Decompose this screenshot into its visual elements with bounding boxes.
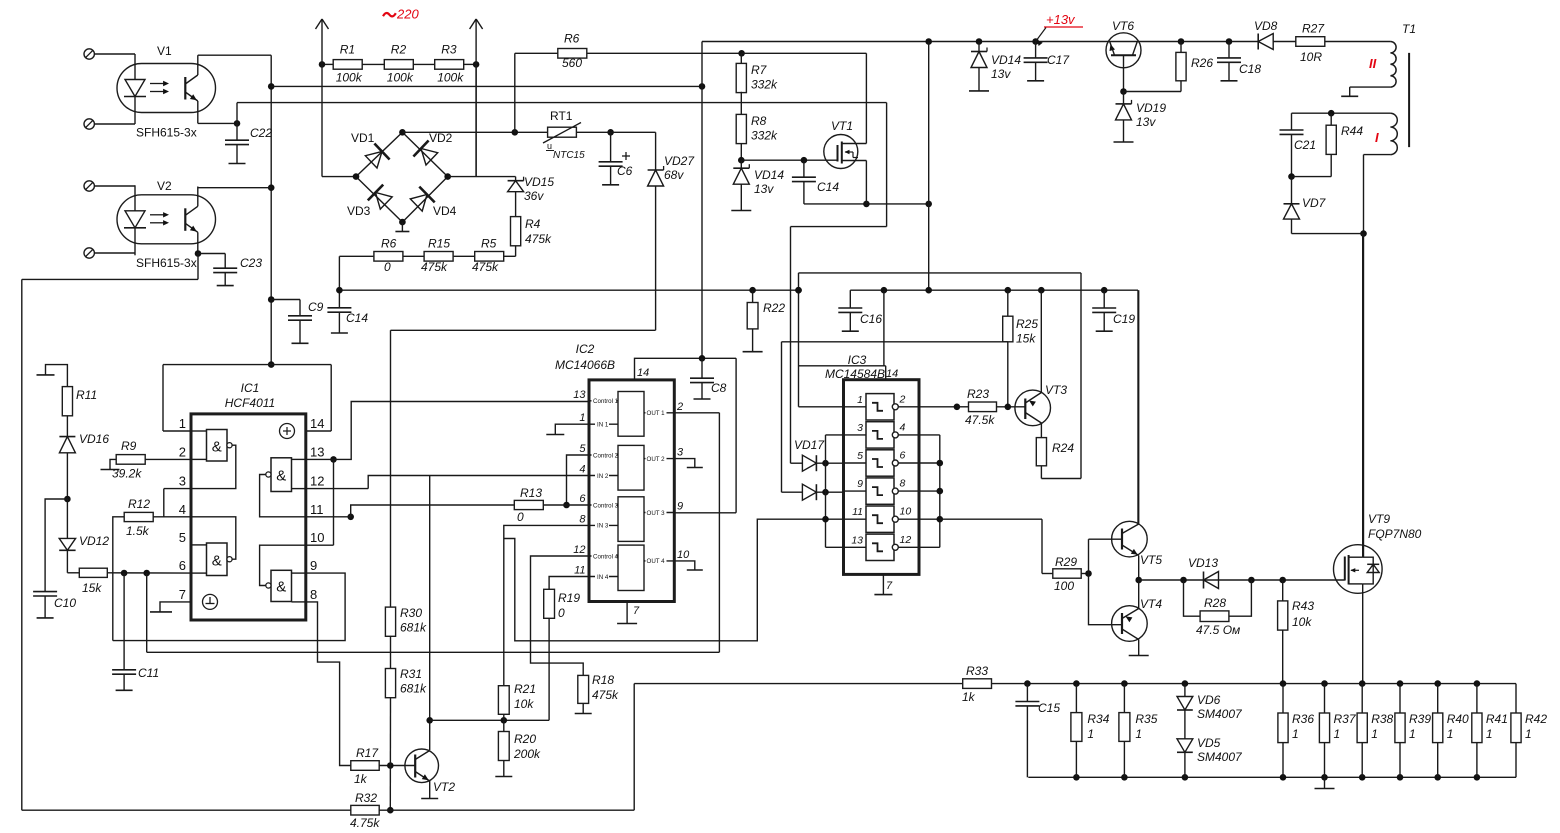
svg-text:13v: 13v (1136, 115, 1156, 129)
svg-text:VD3: VD3 (347, 204, 371, 218)
svg-text:R2: R2 (391, 43, 407, 57)
svg-text:9: 9 (310, 558, 317, 573)
svg-text:V1: V1 (157, 44, 172, 58)
svg-text:1.5k: 1.5k (126, 524, 150, 538)
svg-text:1: 1 (857, 394, 863, 406)
svg-text:VT2: VT2 (433, 780, 455, 794)
svg-text:1k: 1k (962, 690, 976, 704)
svg-text:1: 1 (1486, 727, 1493, 741)
svg-text:8: 8 (579, 513, 586, 525)
svg-text:IN 1: IN 1 (597, 422, 609, 429)
svg-text:Control 2: Control 2 (593, 452, 619, 459)
svg-text:NTC15: NTC15 (553, 150, 585, 161)
svg-text:VD8: VD8 (1254, 19, 1278, 33)
svg-text:475k: 475k (472, 260, 499, 274)
svg-text:VD14: VD14 (991, 53, 1021, 67)
svg-text:VT6: VT6 (1112, 19, 1134, 33)
svg-text:R7: R7 (751, 63, 768, 77)
svg-text:VD6: VD6 (1197, 693, 1221, 707)
svg-text:1: 1 (1447, 727, 1454, 741)
svg-text:R30: R30 (400, 606, 422, 620)
svg-text:6: 6 (579, 493, 586, 505)
svg-text:36v: 36v (524, 189, 544, 203)
svg-text:C14: C14 (346, 311, 368, 325)
svg-text:R38: R38 (1371, 712, 1393, 726)
svg-text:1: 1 (179, 416, 186, 431)
svg-text:IN 2: IN 2 (597, 473, 609, 480)
svg-text:VD13: VD13 (1188, 556, 1218, 570)
svg-text:7: 7 (633, 605, 640, 617)
svg-text:Control 3: Control 3 (593, 502, 619, 509)
svg-text:0: 0 (384, 260, 391, 274)
svg-text:475k: 475k (525, 232, 552, 246)
svg-text:u: u (547, 141, 552, 151)
svg-text:C21: C21 (1294, 138, 1316, 152)
svg-text:R26: R26 (1191, 56, 1213, 70)
svg-text:3: 3 (179, 474, 186, 489)
svg-text:4.75k: 4.75k (350, 816, 380, 830)
svg-text:100k: 100k (437, 71, 464, 85)
svg-text:Control 1: Control 1 (593, 398, 619, 405)
svg-text:15k: 15k (1016, 332, 1036, 346)
svg-text:R8: R8 (751, 114, 767, 128)
svg-text:OUT 1: OUT 1 (647, 410, 666, 417)
svg-text:VT4: VT4 (1140, 597, 1162, 611)
svg-text:R1: R1 (340, 43, 355, 57)
svg-text:R41: R41 (1486, 712, 1508, 726)
svg-text:475k: 475k (592, 688, 619, 702)
svg-text:14: 14 (886, 368, 898, 380)
svg-text:6: 6 (179, 558, 186, 573)
svg-text:0: 0 (558, 606, 565, 620)
svg-text:R24: R24 (1052, 441, 1074, 455)
svg-text:C23: C23 (240, 256, 262, 270)
svg-text:681k: 681k (400, 621, 427, 635)
svg-text:10: 10 (310, 530, 324, 545)
svg-text:VD7: VD7 (1302, 196, 1327, 210)
svg-text:VD14: VD14 (754, 168, 784, 182)
svg-text:C14: C14 (817, 180, 839, 194)
svg-text:100k: 100k (336, 71, 363, 85)
svg-text:1: 1 (1525, 727, 1532, 741)
svg-text:R44: R44 (1341, 124, 1363, 138)
svg-text:&: & (212, 553, 222, 570)
svg-text:IN 4: IN 4 (597, 574, 609, 581)
svg-text:R20: R20 (514, 732, 536, 746)
svg-text:681k: 681k (400, 682, 427, 696)
svg-text:VD2: VD2 (429, 131, 453, 145)
svg-text:9: 9 (677, 501, 683, 513)
svg-text:R11: R11 (76, 388, 97, 402)
svg-text:VD16: VD16 (79, 432, 109, 446)
svg-text:VT9: VT9 (1368, 512, 1390, 526)
svg-text:13: 13 (851, 534, 863, 546)
svg-text:C19: C19 (1113, 312, 1135, 326)
svg-text:7: 7 (179, 587, 186, 602)
svg-text:R40: R40 (1447, 712, 1469, 726)
svg-text:C17: C17 (1047, 53, 1070, 67)
svg-text:HCF4011: HCF4011 (225, 396, 275, 410)
svg-text:VD4: VD4 (433, 204, 457, 218)
svg-text:+13v: +13v (1046, 12, 1076, 27)
svg-text:C9: C9 (308, 300, 324, 314)
svg-text:R9: R9 (121, 439, 137, 453)
svg-text:VD27: VD27 (664, 154, 695, 168)
svg-text:13v: 13v (754, 182, 774, 196)
svg-text:R6: R6 (381, 237, 397, 251)
svg-text:C18: C18 (1239, 62, 1261, 76)
svg-text:SFH615-3x: SFH615-3x (136, 126, 197, 140)
svg-text:220: 220 (396, 7, 419, 22)
svg-text:&: & (212, 439, 222, 456)
svg-text:13: 13 (310, 444, 324, 459)
svg-text:IC1: IC1 (241, 381, 260, 395)
svg-text:OUT 2: OUT 2 (647, 456, 666, 463)
svg-text:R36: R36 (1292, 712, 1314, 726)
svg-text:332k: 332k (751, 129, 778, 143)
svg-text:10k: 10k (1292, 615, 1312, 629)
svg-text:100: 100 (1054, 579, 1074, 593)
svg-text:R27: R27 (1302, 22, 1325, 36)
svg-text:R39: R39 (1409, 712, 1431, 726)
svg-text:5: 5 (857, 450, 863, 462)
svg-text:1: 1 (1334, 727, 1341, 741)
svg-text:R4: R4 (525, 217, 541, 231)
svg-text:R6: R6 (564, 32, 580, 46)
svg-text:5: 5 (579, 443, 586, 455)
svg-text:1: 1 (579, 412, 585, 424)
svg-text:47.5 Ом: 47.5 Ом (1196, 623, 1240, 637)
svg-text:VT3: VT3 (1045, 383, 1067, 397)
svg-text:&: & (276, 579, 286, 596)
svg-text:C6: C6 (617, 164, 633, 178)
svg-text:1: 1 (1087, 727, 1094, 741)
svg-text:T1: T1 (1402, 22, 1416, 36)
svg-text:R29: R29 (1055, 555, 1077, 569)
svg-text:14: 14 (637, 367, 649, 379)
svg-text:R22: R22 (763, 301, 785, 315)
svg-text:IC2: IC2 (576, 342, 595, 356)
svg-text:R43: R43 (1292, 599, 1314, 613)
svg-text:R3: R3 (441, 43, 457, 57)
svg-text:RT1: RT1 (550, 109, 573, 123)
svg-text:4: 4 (900, 421, 906, 433)
svg-text:R34: R34 (1087, 712, 1109, 726)
svg-text:R12: R12 (128, 497, 150, 511)
svg-text:13: 13 (573, 389, 586, 401)
svg-text:5: 5 (179, 530, 186, 545)
svg-text:R32: R32 (355, 791, 377, 805)
svg-text:R17: R17 (356, 746, 379, 760)
svg-text:200k: 200k (513, 747, 541, 761)
svg-text:R15: R15 (428, 237, 450, 251)
svg-text:7: 7 (886, 580, 893, 592)
svg-text:IN 3: IN 3 (597, 523, 609, 530)
svg-text:II: II (1369, 56, 1377, 71)
svg-text:8: 8 (900, 478, 906, 490)
svg-text:3: 3 (857, 422, 863, 434)
svg-text:OUT 4: OUT 4 (647, 558, 666, 565)
svg-text:8: 8 (310, 587, 317, 602)
svg-text:VD1: VD1 (351, 131, 375, 145)
svg-text:SFH615-3x: SFH615-3x (136, 256, 197, 270)
svg-text:475k: 475k (421, 260, 448, 274)
svg-text:SM4007: SM4007 (1197, 750, 1243, 764)
svg-text:10: 10 (677, 549, 690, 561)
svg-text:C15: C15 (1038, 701, 1060, 715)
svg-text:R19: R19 (558, 591, 580, 605)
svg-text:1k: 1k (354, 772, 368, 786)
svg-text:R31: R31 (400, 667, 422, 681)
svg-text:VD12: VD12 (79, 534, 109, 548)
svg-text:2: 2 (179, 444, 186, 459)
svg-text:VD17: VD17 (794, 438, 825, 452)
svg-text:10R: 10R (1300, 50, 1322, 64)
svg-text:12: 12 (900, 534, 912, 546)
svg-text:12: 12 (310, 474, 324, 489)
svg-text:R37: R37 (1334, 712, 1357, 726)
svg-text:11: 11 (852, 506, 863, 518)
svg-text:4: 4 (579, 464, 585, 476)
svg-text:0: 0 (517, 510, 524, 524)
svg-text:12: 12 (573, 544, 585, 556)
svg-text:15k: 15k (82, 581, 102, 595)
svg-text:39.2k: 39.2k (112, 467, 142, 481)
svg-text:11: 11 (574, 565, 585, 577)
svg-text:FQP7N80: FQP7N80 (1368, 527, 1422, 541)
svg-text:9: 9 (857, 478, 863, 490)
svg-text:SM4007: SM4007 (1197, 707, 1243, 721)
svg-text:MC14066B: MC14066B (555, 358, 615, 372)
svg-text:10k: 10k (514, 697, 534, 711)
svg-text:2: 2 (676, 401, 683, 413)
svg-text:6: 6 (900, 450, 906, 462)
svg-text:1: 1 (1135, 727, 1142, 741)
svg-text:560: 560 (562, 56, 582, 70)
svg-text:13v: 13v (991, 67, 1011, 81)
svg-text:C16: C16 (860, 312, 882, 326)
svg-text:332k: 332k (751, 78, 778, 92)
svg-text:R35: R35 (1135, 712, 1157, 726)
svg-text:2: 2 (899, 393, 906, 405)
svg-text:1: 1 (1292, 727, 1299, 741)
svg-text:IC3: IC3 (848, 353, 867, 367)
svg-text:1: 1 (1409, 727, 1416, 741)
svg-text:VT5: VT5 (1140, 553, 1162, 567)
svg-text:OUT 3: OUT 3 (647, 510, 666, 517)
svg-text:&: & (276, 468, 286, 485)
svg-text:3: 3 (677, 447, 684, 459)
svg-text:V2: V2 (157, 179, 172, 193)
svg-text:14: 14 (310, 416, 324, 431)
svg-text:R13: R13 (520, 486, 542, 500)
svg-text:R25: R25 (1016, 317, 1038, 331)
svg-text:VD5: VD5 (1197, 736, 1221, 750)
svg-text:R5: R5 (481, 237, 497, 251)
svg-text:4: 4 (179, 502, 186, 517)
svg-text:47.5k: 47.5k (965, 413, 995, 427)
svg-text:C10: C10 (54, 596, 76, 610)
svg-text:100k: 100k (387, 71, 414, 85)
svg-text:VD19: VD19 (1136, 101, 1166, 115)
svg-text:VT1: VT1 (831, 119, 853, 133)
svg-text:1: 1 (1371, 727, 1378, 741)
svg-text:C11: C11 (138, 666, 159, 680)
svg-text:11: 11 (310, 502, 324, 517)
svg-text:68v: 68v (664, 168, 684, 182)
svg-text:R23: R23 (967, 387, 989, 401)
svg-text:R33: R33 (966, 664, 988, 678)
svg-text:C8: C8 (711, 381, 727, 395)
svg-text:R18: R18 (592, 673, 614, 687)
svg-text:10: 10 (900, 506, 912, 518)
svg-text:R28: R28 (1204, 596, 1226, 610)
svg-text:R21: R21 (514, 682, 536, 696)
svg-text:VD15: VD15 (524, 175, 554, 189)
svg-text:R42: R42 (1525, 712, 1547, 726)
svg-text:Control 4: Control 4 (593, 553, 619, 560)
svg-text:I: I (1375, 130, 1379, 145)
svg-text:C22: C22 (250, 126, 272, 140)
